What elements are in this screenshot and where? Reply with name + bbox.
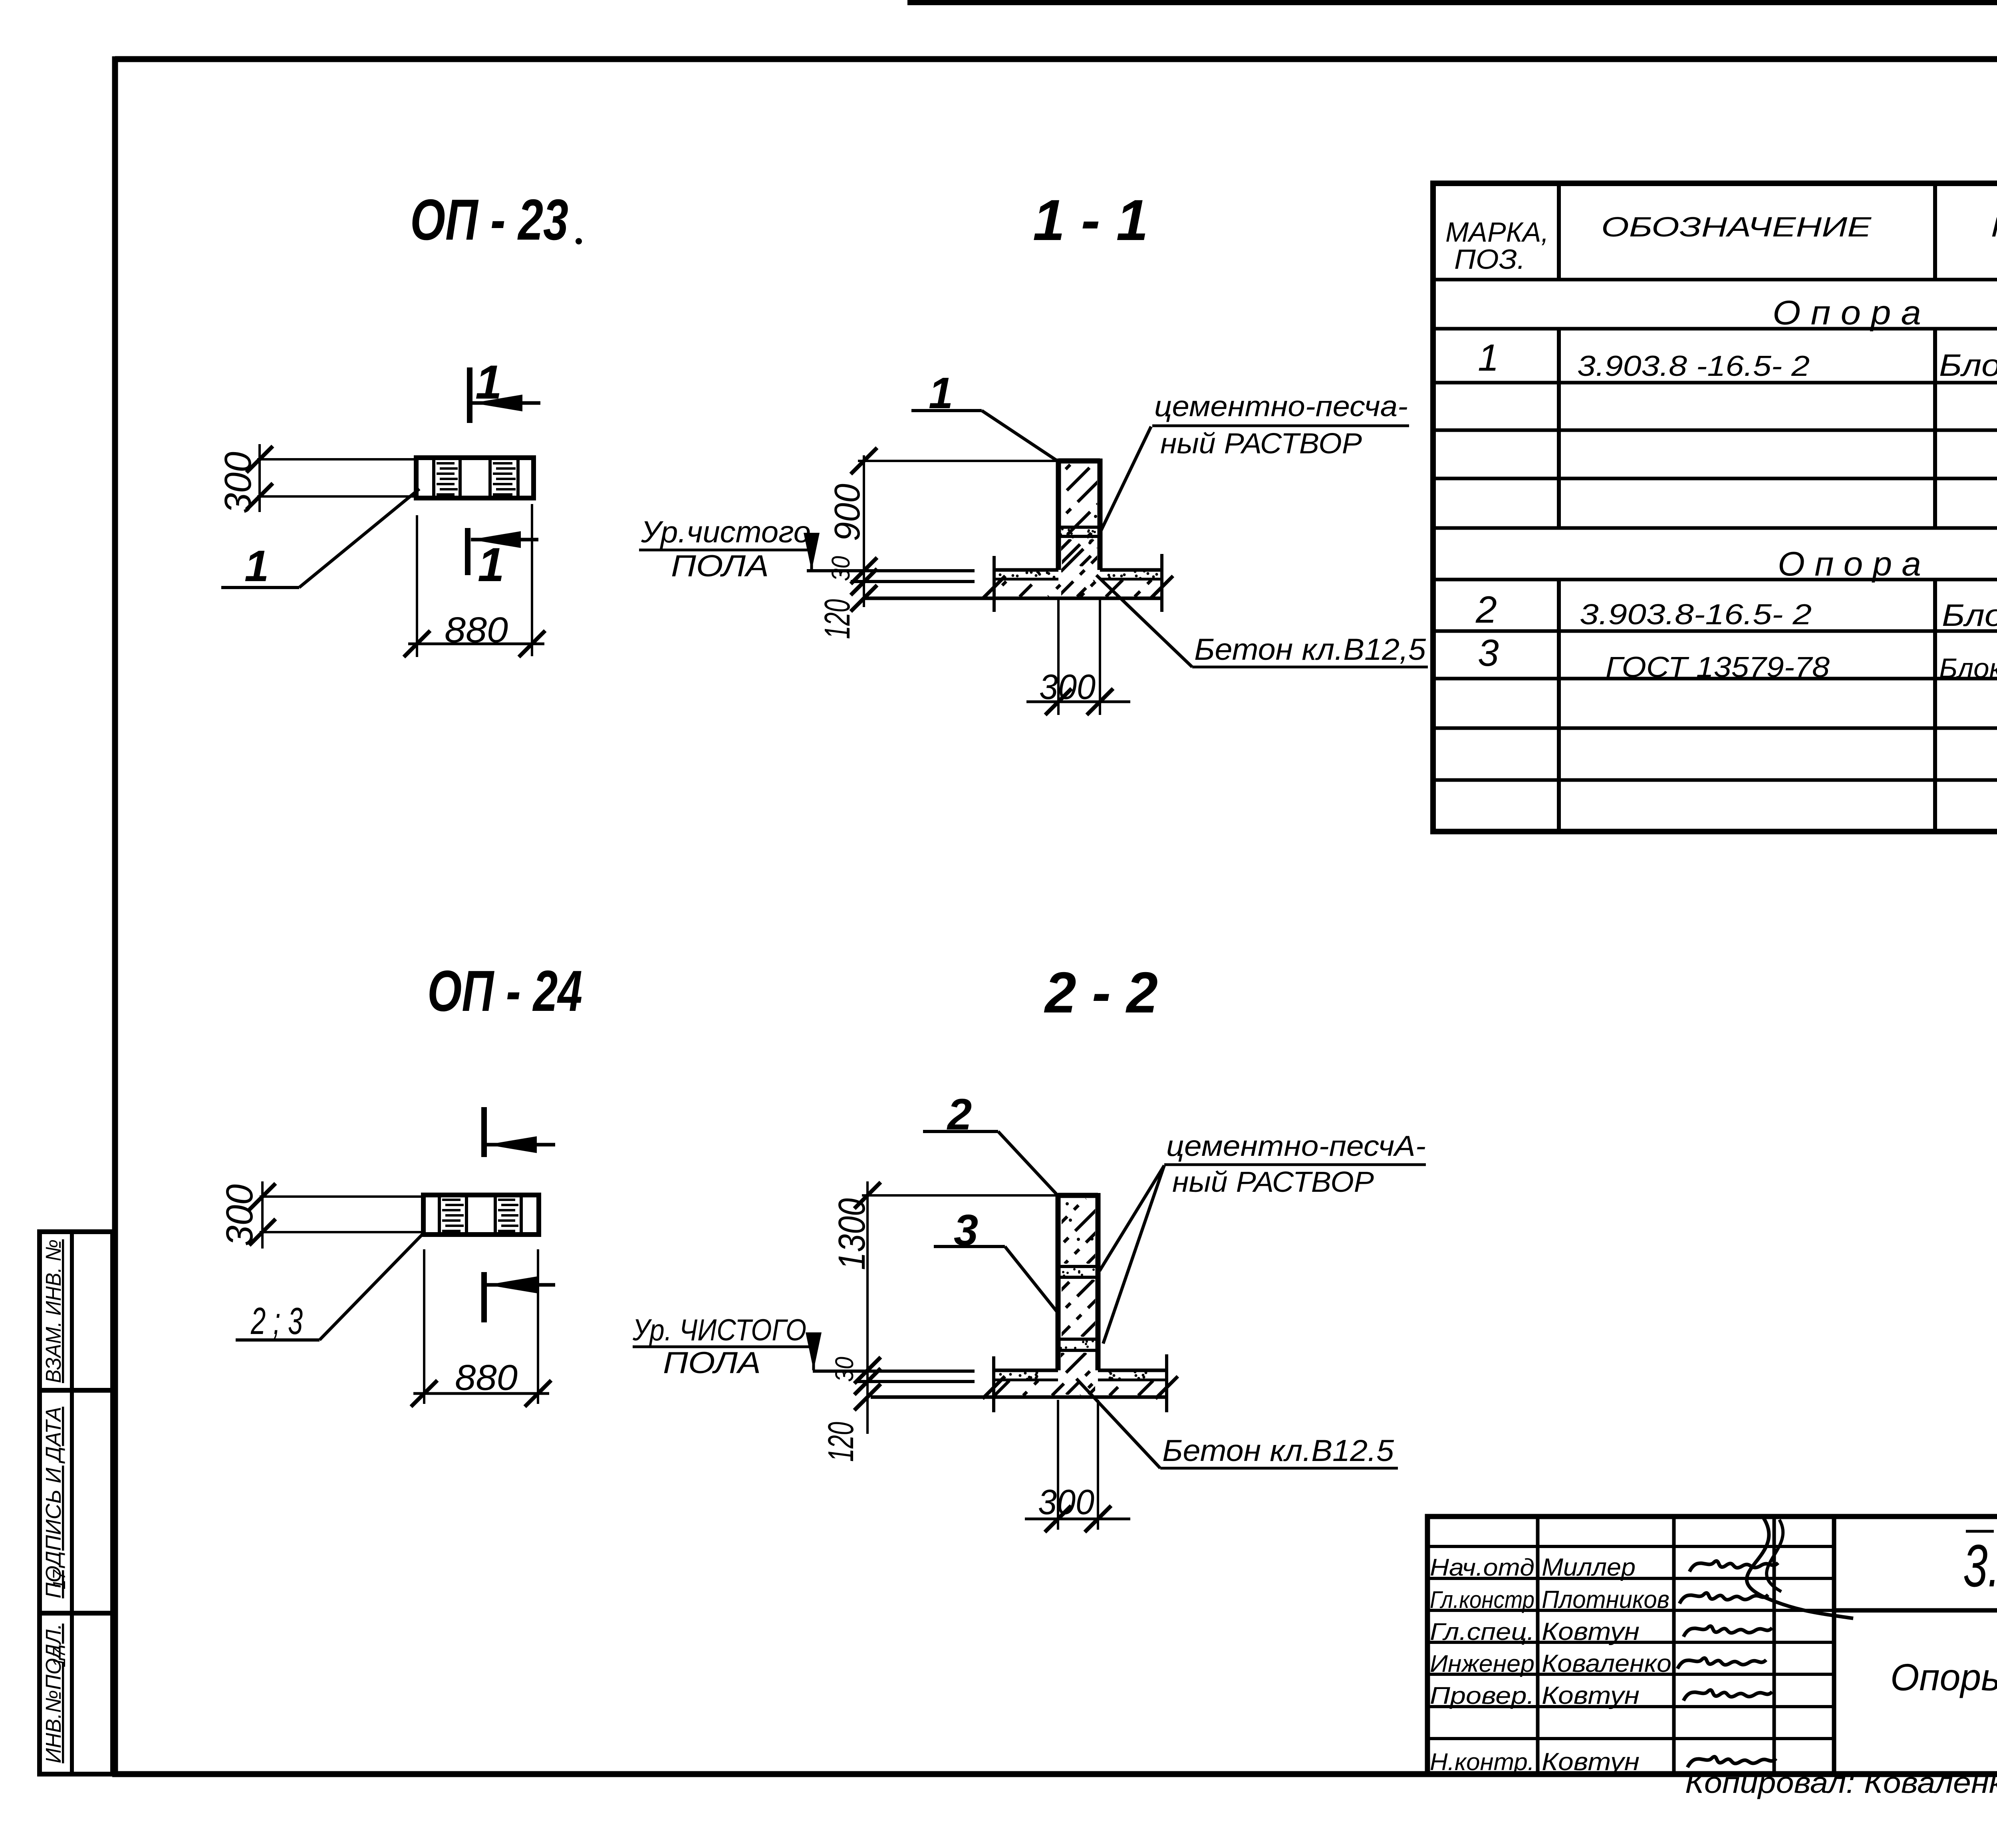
svg-text:Плотников: Плотников: [1542, 1586, 1669, 1614]
dim 880 dimension line: [408, 643, 544, 645]
svg-text:880: 880: [445, 610, 508, 650]
level mark line: [639, 549, 812, 552]
leader pos 3 lines: [934, 1245, 1005, 1248]
level mark 2-2 arrow: [812, 1347, 815, 1370]
svg-text:ОБОЗНАЧЕНИЕ: ОБОЗНАЧЕНИЕ: [1601, 211, 1872, 242]
svg-text:Блок бетонный ФБ-6: Блок бетонный ФБ-6: [1942, 597, 1997, 633]
title block row lines: [1427, 1545, 1834, 1548]
svg-text:300: 300: [1038, 1482, 1094, 1522]
level mark 2-2 line: [633, 1346, 814, 1348]
dim ext from column top 2-2: [862, 1194, 1058, 1197]
svg-text:30: 30: [826, 556, 855, 581]
footing 2-2 sides: [992, 1356, 995, 1412]
title block verticals: [1536, 1517, 1540, 1774]
svg-text:880: 880: [455, 1358, 518, 1398]
leader 1 lines: [221, 586, 299, 589]
parts table: [1430, 181, 1997, 186]
concrete leader 2-2: [1076, 1379, 1160, 1468]
svg-text:2 - 2: 2 - 2: [1044, 960, 1158, 1025]
svg-text:Блок бетонныйФБС9.3.6- Т: Блок бетонныйФБС9.3.6- Т: [1939, 653, 1997, 684]
svg-text:Коваленко: Коваленко: [1542, 1650, 1671, 1677]
svg-text:ный РАСТВОР: ный РАСТВОР: [1160, 428, 1362, 460]
svg-text:Блок бетонный ФБ-4: Блок бетонный ФБ-4: [1939, 347, 1997, 383]
column FB-4 outline: [1058, 459, 1100, 464]
section mark 2 bottom tick: [481, 1272, 487, 1322]
bottom dim 300 line: [1026, 701, 1130, 703]
svg-text:НАИМЕНОВАНИЕ: НАИМЕНОВАНИЕ: [1991, 211, 1997, 242]
bottom dim 300 2-2 ext: [1057, 1400, 1059, 1530]
vertical dim chain line: [863, 455, 865, 607]
section mark 1 top tick: [467, 367, 472, 423]
svg-text:Ковтун: Ковтун: [1542, 1618, 1640, 1646]
left margin strip table: [40, 1232, 113, 1774]
section mark 1 bottom arrow: [471, 538, 538, 542]
floor line upper: [807, 569, 975, 572]
plan block OP-23 hatch band 2: [493, 462, 512, 464]
plan block OP-24 outline: [423, 1195, 539, 1235]
section mark 1 bottom tick: [465, 528, 470, 575]
leader pos 1 lines: [911, 409, 982, 412]
svg-text:Бетон кл.В12,5: Бетон кл.В12,5: [1194, 633, 1426, 667]
svg-text:120: 120: [821, 1422, 861, 1462]
title block outline: [1427, 1517, 1997, 1774]
svg-text:Н.контр.: Н.контр.: [1430, 1749, 1534, 1775]
svg-text:1: 1: [475, 355, 502, 409]
stray dot after title: [576, 238, 582, 244]
mortar joint in column: [1058, 526, 1100, 529]
level mark arrow: [810, 550, 813, 571]
svg-text:ОП - 23: ОП - 23: [410, 187, 568, 252]
footing sides: [993, 556, 996, 612]
svg-text:Ур. ЧИСТОГО: Ур. ЧИСТОГО: [632, 1313, 806, 1347]
OP-24 dim 880 line: [413, 1392, 549, 1395]
svg-text:Провер.: Провер.: [1430, 1682, 1534, 1709]
svg-text:1: 1: [1478, 337, 1499, 379]
svg-text:120: 120: [818, 599, 858, 639]
section mark 2 top tick: [481, 1107, 487, 1157]
svg-text:ГОСТ 13579-78: ГОСТ 13579-78: [1606, 651, 1830, 683]
svg-text:2 ; 3: 2 ; 3: [250, 1300, 303, 1342]
mortar leader: [1101, 427, 1151, 531]
svg-text:Ковтун: Ковтун: [1542, 1682, 1640, 1709]
svg-text:ПОЛА: ПОЛА: [671, 549, 769, 583]
OP-24 dim 300 ext lines: [260, 1195, 423, 1198]
scan bar top: [907, 0, 1997, 5]
svg-text:Нач.отд: Нач.отд: [1430, 1554, 1534, 1581]
footing top left segment: [994, 568, 1058, 572]
svg-text:Гл.спец.: Гл.спец.: [1430, 1618, 1534, 1645]
svg-text:ОП - 24: ОП - 24: [427, 959, 582, 1023]
svg-text:1300: 1300: [831, 1198, 873, 1270]
svg-text:Бетон кл.В12.5: Бетон кл.В12.5: [1162, 1434, 1394, 1468]
footing 2-2 top left: [994, 1369, 1058, 1372]
svg-text:цементно-песча-: цементно-песча-: [1154, 391, 1408, 423]
plan block OP-23 dividers: [432, 458, 435, 498]
leader 2;3 lines: [236, 1338, 320, 1342]
svg-text:ПОДПИСЬ И ДАТА: ПОДПИСЬ И ДАТА: [42, 1407, 66, 1598]
column FB-6 outline: [1058, 1193, 1098, 1198]
svg-text:Гл.констр: Гл.констр: [1430, 1586, 1534, 1613]
dim 880 extension lines: [416, 515, 418, 657]
section mark 2 top arrow: [487, 1143, 555, 1147]
sheet frame: [115, 56, 1997, 62]
floor line lower: [851, 580, 975, 583]
bottom dim 300 ext lines: [1057, 599, 1060, 715]
svg-text:3.903.8 -16.5- 2: 3.903.8 -16.5- 2: [1577, 350, 1810, 382]
svg-text:3: 3: [1478, 632, 1499, 674]
title block right horizontals: [1834, 1608, 1997, 1613]
OP-24 dim 300 line: [261, 1181, 264, 1249]
floor line lower 2-2: [857, 1380, 975, 1383]
mortar leaders 2-2: [1100, 1165, 1164, 1271]
dim 300 extension lines: [257, 458, 416, 461]
plan block OP-24 dividers: [438, 1195, 441, 1235]
svg-text:ный РАСТВОР: ный РАСТВОР: [1172, 1166, 1374, 1198]
signatures: [1689, 1561, 1778, 1572]
concrete leader: [1096, 575, 1192, 667]
svg-text:МАРКА,: МАРКА,: [1445, 216, 1549, 248]
svg-text:Копировал: Коваленко: Копировал: Коваленко: [1685, 1766, 1997, 1799]
OP-24 dim 880 ext lines: [423, 1249, 425, 1404]
svg-text:17: 17: [50, 1647, 69, 1667]
svg-text:3.903.8-16.5- 2: 3.903.8-16.5- 2: [1580, 599, 1812, 631]
mortar joint 1: [1058, 1265, 1098, 1268]
svg-text:30: 30: [830, 1357, 859, 1382]
svg-text:ИНВ.№ПОДЛ.: ИНВ.№ПОДЛ.: [42, 1624, 66, 1763]
plan block OP-24 hatch band 2: [498, 1199, 515, 1201]
bottom dim 300 2-2 line: [1025, 1518, 1130, 1520]
svg-text:1: 1: [244, 542, 269, 591]
mortar joint 2: [1058, 1338, 1098, 1341]
dim 300 dimension line: [258, 444, 261, 512]
svg-text:2: 2: [1475, 589, 1497, 631]
big flourish: [1747, 1518, 1853, 1618]
svg-text:ВЗАМ. ИНВ. №: ВЗАМ. ИНВ. №: [42, 1239, 66, 1383]
svg-text:Ур.чистого: Ур.чистого: [641, 515, 811, 549]
svg-text:Опоры ОП-23; ОП-24: Опоры ОП-23; ОП-24: [1890, 1656, 1997, 1699]
svg-text:ПОЛА: ПОЛА: [663, 1346, 761, 1380]
svg-text:900: 900: [828, 484, 867, 541]
svg-text:300: 300: [1039, 667, 1096, 707]
svg-text:300: 300: [218, 1184, 261, 1246]
footing 2-2 bottom: [871, 1395, 1167, 1399]
svg-text:Миллер: Миллер: [1542, 1554, 1636, 1581]
stray scan dashes above doc number: [1966, 1530, 1994, 1533]
vertical dim chain 2-2: [866, 1181, 869, 1434]
svg-text:О п о р а: О п о р а: [1773, 294, 1921, 332]
section mark 2 bottom arrow: [487, 1283, 555, 1287]
svg-text:17: 17: [50, 1569, 69, 1589]
footing top right segment: [1100, 568, 1162, 572]
svg-text:3.903.8 - 16.4 - 25: 3.903.8 - 16.4 - 25: [1963, 1532, 1997, 1599]
footing 2-2 top right: [1098, 1369, 1167, 1372]
leader pos 2 lines: [923, 1130, 998, 1133]
svg-text:Инженер: Инженер: [1430, 1650, 1534, 1677]
plan block OP-24 hatch band 1: [442, 1199, 461, 1201]
svg-text:300: 300: [217, 452, 259, 514]
svg-text:О п о р а: О п о р а: [1778, 545, 1921, 583]
dim ext from column top: [858, 460, 1058, 462]
plan block OP-23 outline: [416, 458, 534, 498]
floor line upper 2-2: [813, 1370, 975, 1373]
svg-text:ПОЗ.: ПОЗ.: [1454, 244, 1525, 275]
svg-text:1 - 1: 1 - 1: [1033, 188, 1148, 252]
svg-text:Ковтун: Ковтун: [1542, 1748, 1640, 1776]
plan block OP-23 hatch band 1: [437, 462, 455, 464]
footing bottom: [863, 597, 1163, 600]
svg-text:1: 1: [478, 538, 504, 592]
section mark 1 top arrow: [472, 401, 540, 405]
svg-text:цементно-песчА-: цементно-песчА-: [1166, 1130, 1426, 1162]
